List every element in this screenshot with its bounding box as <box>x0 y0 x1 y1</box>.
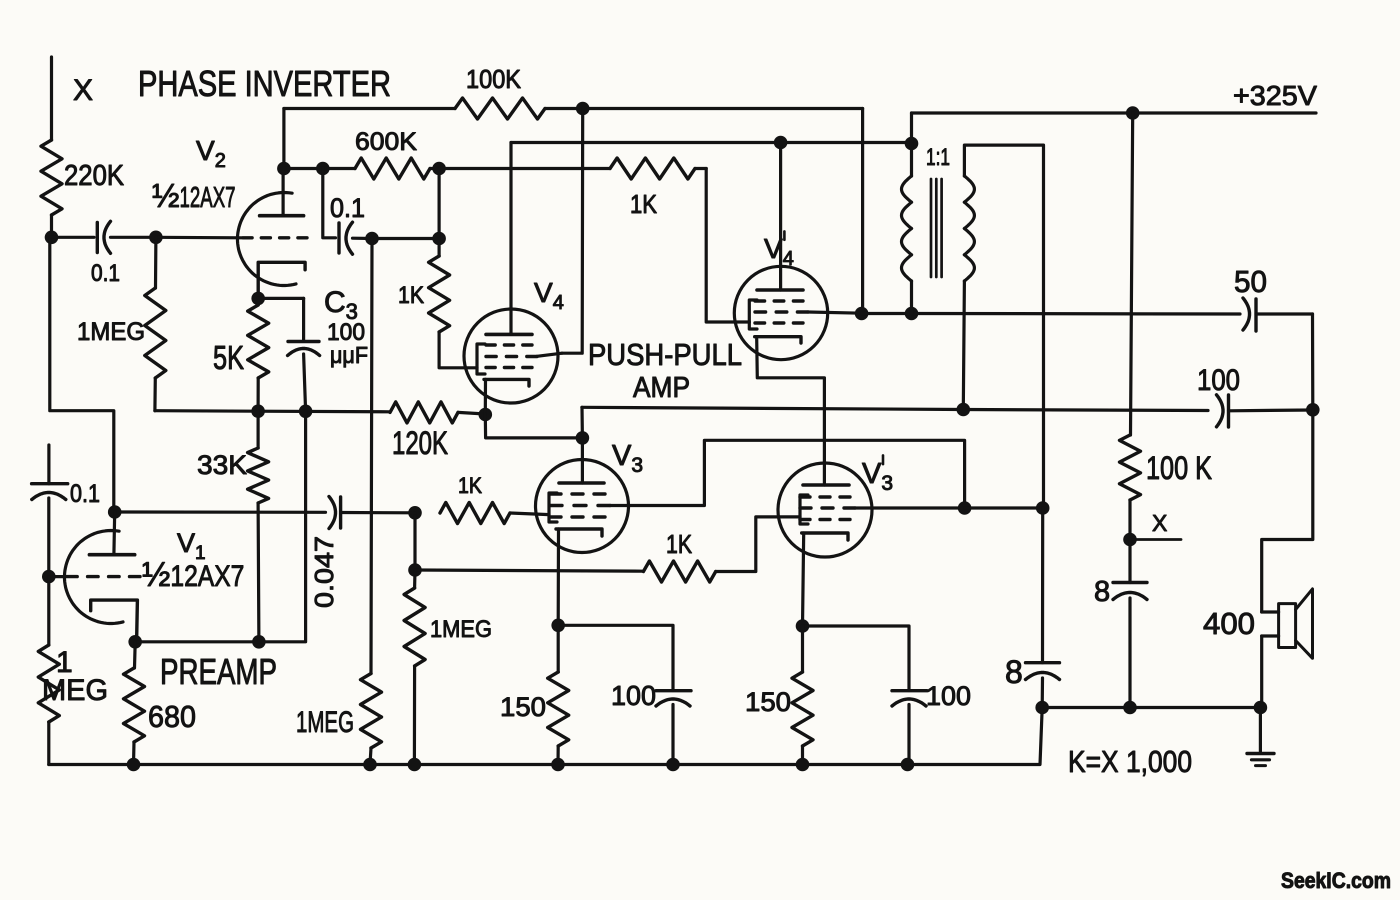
capacitor 100 (V3 bypass) <box>611 680 691 765</box>
capacitor C3 100uuF <box>288 342 320 412</box>
resistor 1MEG (V2 grid leak) <box>77 237 166 410</box>
junction dot x1043/grid row <box>1036 501 1050 515</box>
junction dot V1 cathode <box>128 635 142 649</box>
wire to V2 grid <box>156 236 242 240</box>
label X (tap) <box>1130 510 1181 540</box>
resistor 100K (B+ dropper) <box>1120 435 1213 540</box>
svg-text:1MEG: 1MEG <box>296 706 354 739</box>
junction dot 0.047 out <box>408 506 422 520</box>
svg-text:PREAMP: PREAMP <box>160 651 277 692</box>
svg-text:X: X <box>73 74 93 107</box>
svg-text:X: X <box>1152 510 1167 536</box>
junction dot 0.1 out <box>365 232 379 246</box>
wire V3' RC top <box>803 626 910 691</box>
wire speaker return <box>1260 636 1263 708</box>
wire B+ dropper vertical <box>1131 113 1133 435</box>
label V4 <box>534 277 564 314</box>
svg-text:½12AX7: ½12AX7 <box>152 177 236 214</box>
svg-text:AMP: AMP <box>633 372 690 404</box>
wire V4' cathode to V3' plate <box>757 339 825 485</box>
junction dot V2 plate node B <box>316 162 330 176</box>
tube V4 envelope <box>464 309 558 403</box>
label V3 <box>612 440 643 477</box>
junction dot V2 plate node A <box>277 162 291 176</box>
svg-text:0.047: 0.047 <box>309 536 339 608</box>
label V1 <box>177 528 206 564</box>
capacitor 0.1 (V2 plate coupling) <box>323 169 372 255</box>
junction dot V3 cathode node <box>551 619 565 633</box>
tube V4' grid side-rail <box>749 300 757 329</box>
watermark SeekIC.com <box>1281 868 1391 893</box>
wire y313 to 50 cap <box>912 312 1241 316</box>
wire V4 cathode down to V3 plate <box>485 415 582 438</box>
svg-text:100: 100 <box>611 680 656 711</box>
junction dot 100-cap/speaker node <box>1306 403 1320 417</box>
tube V4' screen grids (dashed) <box>755 301 808 323</box>
resistor 1K (V4 grid stopper) <box>398 239 477 368</box>
capacitor 100 (series right) <box>1197 364 1313 427</box>
junction dot +325V tap <box>1126 106 1140 120</box>
junction dot bus 150L <box>551 758 565 772</box>
label V2 <box>196 135 226 172</box>
svg-text:120K: 120K <box>392 425 448 461</box>
resistor 150 (V3' cathode) <box>745 626 813 765</box>
wire 600K row <box>284 167 355 170</box>
resistor 1K (V4' grid feed) <box>610 158 706 219</box>
wire +325V rail <box>912 113 1317 144</box>
label +325V <box>1233 80 1317 111</box>
tube V4 grid side-rail <box>477 344 485 374</box>
node X input stub (top) <box>52 57 94 140</box>
resistor 600K <box>355 128 439 179</box>
tube V3 plate <box>559 438 604 483</box>
wire 0.1-out to 1K node <box>372 237 439 240</box>
svg-text:100 K: 100 K <box>1146 450 1212 486</box>
svg-text:33K: 33K <box>197 450 247 480</box>
wire jog input rail down <box>50 237 114 512</box>
wire 600K-to-0.1 vertical <box>438 169 441 239</box>
label K = X 1,000 <box>1068 744 1192 779</box>
svg-text:8: 8 <box>1094 576 1110 608</box>
svg-text:1K: 1K <box>630 189 658 219</box>
label 1 (of 1 MEG) <box>56 646 73 679</box>
wire V2 plate node vertical to 100K <box>282 109 285 169</box>
tube V1 cathode <box>91 600 138 642</box>
resistor 33K <box>197 411 269 642</box>
junction dot V4 cathode node <box>479 408 493 422</box>
junction dot 1K top node <box>432 232 446 246</box>
wire 0.047 node down <box>413 513 416 570</box>
label C3 <box>324 286 358 324</box>
tube V3' plate <box>803 483 849 487</box>
label 1:1 <box>926 144 950 171</box>
wire 50 out down <box>1311 314 1315 410</box>
label PUSH-PULL <box>588 337 742 372</box>
ground symbol <box>1247 708 1274 766</box>
svg-text:½12AX7: ½12AX7 <box>142 556 244 594</box>
resistor 1K (V3 grid) <box>440 473 549 524</box>
capacitor 0.1 (V1 grid, vertical) <box>32 480 100 577</box>
junction dot bus 100R <box>901 758 915 772</box>
junction dot V3 plate node <box>576 431 590 445</box>
svg-text:100: 100 <box>1197 364 1240 397</box>
resistor 1MEG (mid, from 0.1 out) <box>296 674 382 765</box>
wire 100K to right corner <box>545 109 863 314</box>
label V3' <box>862 455 893 495</box>
tube V2 cathode <box>258 262 305 298</box>
label AMP <box>633 372 690 404</box>
wire input stub <box>47 445 50 484</box>
tube V3 cathode <box>556 529 602 625</box>
junction dot 100K/V4-grid tap <box>576 102 590 116</box>
tube V3 grid side-rail <box>549 493 557 522</box>
wire V1 grid entry <box>49 575 65 578</box>
junction dot 1K-V3' feed <box>408 563 422 577</box>
wire 220K bottom to V1-plate node <box>50 215 53 237</box>
svg-text:μμF: μμF <box>330 342 368 368</box>
junction dot 600K right <box>432 162 446 176</box>
tube V4' plate <box>757 143 803 291</box>
junction dot 5K/33K node <box>251 404 265 418</box>
junction dot V1 grid <box>42 570 56 584</box>
label 400 <box>1203 606 1255 641</box>
capacitor 100 (V3' bypass) <box>892 681 971 765</box>
junction dot screen row/x862 <box>855 307 869 321</box>
junction dot V3' grid/x964 <box>958 501 972 515</box>
svg-text:220K: 220K <box>64 160 125 192</box>
svg-text:0.1: 0.1 <box>70 480 100 508</box>
svg-text:5K: 5K <box>213 339 244 376</box>
svg-text:600K: 600K <box>355 128 417 156</box>
svg-text:+325V: +325V <box>1233 80 1317 111</box>
svg-text:100: 100 <box>926 681 971 711</box>
svg-text:100K: 100K <box>466 64 522 94</box>
junction dot 8L bottom <box>1035 701 1049 715</box>
svg-text:PUSH-PULL: PUSH-PULL <box>588 337 742 372</box>
junction dot V1 plate <box>108 505 122 519</box>
transformer T1 secondary coil <box>963 145 1043 508</box>
resistor 150 (V3 cathode) <box>500 625 569 764</box>
svg-text:0.1: 0.1 <box>330 193 365 223</box>
wire 100K top row <box>284 107 455 110</box>
label half-12AX7 (V2) <box>152 177 236 214</box>
wire y642 corner up <box>259 411 306 642</box>
transformer T1 core <box>931 179 942 277</box>
wire long 1MEG-4 feed <box>371 239 372 674</box>
wire screen row y142 <box>511 141 912 144</box>
wire cathode row y642 <box>135 640 259 643</box>
svg-text:1:1: 1:1 <box>926 144 950 171</box>
wire cathode-bias row y411 <box>155 411 390 412</box>
svg-text:50: 50 <box>1234 264 1267 299</box>
tube V4 screen grids (dashed) <box>486 345 537 368</box>
capacitor 0.047 (series) <box>309 497 415 609</box>
transformer T1 primary coil <box>902 144 912 314</box>
label MEG <box>42 674 108 707</box>
resistor 120K <box>390 402 485 461</box>
tube V4' cathode <box>755 337 801 343</box>
junction dot V2 cathode <box>251 292 265 306</box>
tube V1 plate <box>89 512 134 555</box>
wire V3 RC top <box>558 625 673 690</box>
svg-text:150: 150 <box>500 692 546 722</box>
tube V2 plate <box>260 169 304 216</box>
label C3 uuF <box>330 342 368 368</box>
label C3 value 100 <box>327 319 365 346</box>
svg-text:1MEG: 1MEG <box>77 318 145 346</box>
resistor 220K <box>41 140 125 215</box>
junction dot transformer primary bottom <box>905 307 919 321</box>
tube V3' grid side-rail <box>800 495 808 524</box>
wire V3' grid exit right <box>855 506 965 509</box>
wire V3 plate drop <box>580 407 584 438</box>
junction dot V4' plate tap <box>774 136 788 150</box>
capacitor 0.1 input coupling (series) <box>52 221 156 287</box>
tube V2 envelope <box>238 193 297 286</box>
svg-text:400: 400 <box>1203 606 1255 641</box>
speaker 400 driver <box>1262 604 1296 648</box>
tube V4' envelope <box>734 266 827 359</box>
svg-text:1K: 1K <box>666 529 693 559</box>
svg-text:1K: 1K <box>458 473 482 498</box>
junction dot V3' cathode node <box>796 619 810 633</box>
speaker 400 horn <box>1296 589 1313 658</box>
svg-text:1MEG: 1MEG <box>430 616 492 643</box>
junction dot bus 1MEG-3 <box>408 758 422 772</box>
resistor 100K (plate load) <box>455 64 545 119</box>
junction dot secondary bottom <box>957 403 971 417</box>
junction dot X tap <box>1123 533 1137 547</box>
svg-text:1K: 1K <box>398 282 424 309</box>
resistor 1MEG (0.047 node) <box>404 570 492 765</box>
wire V3-plate row y409 <box>582 407 1208 410</box>
junction dot bus 1MEG-mid <box>363 758 377 772</box>
tube V3' envelope <box>778 463 872 557</box>
junction dot V2-grid coupling node <box>45 231 59 245</box>
tube V3 envelope <box>536 460 629 553</box>
wire ground bus <box>49 708 1042 765</box>
junction dot 0.1/1MEG/V2-grid <box>149 231 163 245</box>
wire V4 grid riser <box>562 109 583 354</box>
tube V4 cathode <box>484 379 529 414</box>
svg-text:PHASE INVERTER: PHASE INVERTER <box>138 63 391 104</box>
tube V4 plate <box>486 143 532 335</box>
label PREAMP <box>160 651 277 692</box>
svg-text:8: 8 <box>1005 654 1023 690</box>
junction dot 33K bottom <box>252 635 266 649</box>
wire V4' grid exit right <box>808 312 862 313</box>
svg-text:0.1: 0.1 <box>91 260 120 287</box>
tube V3 screen grids (dashed) <box>550 494 610 517</box>
junction dot C3 bottom node <box>299 405 313 419</box>
wire 1K top row <box>439 167 610 170</box>
svg-text:K=X 1,000: K=X 1,000 <box>1068 744 1192 779</box>
resistor 680 <box>124 642 197 765</box>
wire grid row to x1043 <box>965 506 1043 509</box>
label half-12AX7 (V1) <box>142 556 244 594</box>
svg-text:680: 680 <box>148 699 196 734</box>
svg-text:150: 150 <box>745 687 791 717</box>
tube V1 envelope <box>65 531 124 624</box>
resistor 5K <box>213 305 269 411</box>
resistor 1MEG (V1 grid leak) <box>38 577 59 765</box>
label V4' <box>764 231 794 270</box>
label PHASE INVERTER <box>138 63 391 104</box>
wire y707 row <box>1042 706 1260 709</box>
junction dot B+ drop <box>905 137 919 151</box>
wire 1K-V3' left <box>415 570 643 571</box>
wire speaker feed <box>1262 410 1313 612</box>
capacitor 8 (left) <box>1005 508 1060 708</box>
wire screen row y313 <box>862 312 912 315</box>
tube V3' cathode <box>802 533 848 626</box>
junction dot bus 150R <box>796 758 810 772</box>
wire V2 cathode to C3 <box>258 298 303 341</box>
tube V2 grid (dashed) <box>243 236 307 239</box>
svg-text:MEG: MEG <box>42 674 108 707</box>
junction dot ground node <box>1254 701 1268 715</box>
tube V1 grid (dashed) <box>67 575 140 578</box>
wire V4 grid exit <box>537 353 562 356</box>
junction dot 8M bottom <box>1123 701 1137 715</box>
wire V1 plate row <box>115 510 326 513</box>
wire V3 grid exit right <box>610 440 965 508</box>
junction dot bus 680 <box>127 758 141 772</box>
capacitor 8 (mid) <box>1094 540 1147 708</box>
junction dot bus 100L <box>666 758 680 772</box>
tube V3' screen grids (dashed) <box>800 497 855 520</box>
wire 1K to V4' grid <box>706 169 749 323</box>
resistor 1K (V3' grid) <box>643 517 800 582</box>
svg-text:SeekIC.com: SeekIC.com <box>1281 868 1391 893</box>
capacitor 50 (series) <box>1234 264 1313 331</box>
